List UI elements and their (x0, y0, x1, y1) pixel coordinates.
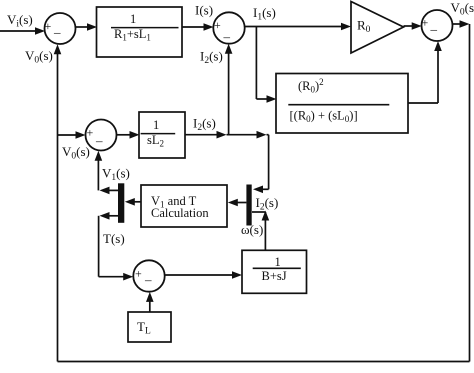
svg-text:–: – (430, 22, 438, 37)
wire input Vi into S1 (0, 27, 45, 35)
amplifier gain R0 triangle (351, 2, 404, 54)
wire feedback bottom horizontal (58, 361, 470, 363)
wire TL up into S5 (146, 292, 154, 312)
svg-text:–: – (144, 272, 152, 287)
svg-text:Calculation: Calculation (151, 206, 209, 220)
svg-text:1: 1 (275, 255, 281, 269)
svg-text:B+sJ: B+sJ (262, 269, 287, 283)
svg-text:V0(s): V0(s) (25, 48, 53, 66)
svg-text:–: – (53, 25, 61, 40)
svg-text:1: 1 (153, 118, 159, 132)
block TL (128, 312, 171, 342)
wire S1 to block G1 (76, 23, 98, 31)
wire G3 output up into S3 (408, 41, 442, 103)
block G4 1/(B+sJ) (242, 250, 307, 293)
svg-text:I2(s): I2(s) (256, 195, 279, 213)
svg-text:I1(s): I1(s) (253, 5, 276, 23)
svg-text:V1(s): V1(s) (102, 166, 130, 184)
svg-text:+: + (135, 267, 142, 281)
mux bar (246, 185, 251, 226)
summing junction S5 (133, 260, 164, 291)
summing junction S1 (45, 13, 76, 44)
wire omega up into mux (252, 211, 269, 251)
svg-text:I(s): I(s) (195, 3, 213, 18)
block G1 1/(R1+sL1) (97, 7, 183, 57)
block G2 1/sL2 (139, 112, 185, 158)
wire feedback tap into S4 (58, 131, 86, 139)
wire feedback left vertical up into S1 (54, 44, 62, 361)
summing junction S3 (422, 10, 453, 41)
wire S2 to amplifier R0 (245, 23, 351, 31)
wire mux to calculation block (228, 199, 247, 207)
block calculation V1 and T (141, 185, 227, 227)
summing junction S4 (86, 120, 117, 151)
wire I2 up into S2 (225, 44, 233, 135)
svg-text:+: + (422, 16, 429, 30)
svg-text:+: + (45, 19, 52, 33)
wire demux V1 up into S4 (95, 151, 118, 195)
wire G2 output I2 horizontal (185, 131, 269, 139)
svg-text:+: + (87, 126, 94, 140)
wire S5 to block G4 (165, 271, 242, 279)
svg-text:1: 1 (130, 12, 136, 26)
svg-text:–: – (223, 29, 231, 44)
svg-text:I2(s): I2(s) (200, 49, 223, 67)
wire S3 output with arrow (453, 20, 470, 28)
wire amplifier to S3 (404, 22, 422, 30)
svg-text:Vi(s): Vi(s) (7, 12, 33, 30)
wire demux T down and into S5 (99, 212, 134, 281)
svg-text:I2(s): I2(s) (193, 116, 216, 134)
svg-text:–: – (95, 133, 103, 148)
wire G1 to S2 (182, 23, 214, 31)
wire calculation block to demux (125, 198, 141, 206)
block G3 (R0)^2 / [(R0)+(sL0)] (276, 74, 408, 134)
svg-text:ω(s): ω(s) (241, 222, 263, 237)
wire I2 down into mux (253, 135, 269, 193)
wire feedback right vertical (469, 24, 471, 362)
svg-text:+: + (214, 18, 221, 32)
wire S4 to block G2 (117, 131, 140, 139)
svg-text:V0(s): V0(s) (62, 144, 90, 162)
summing junction S2 (213, 12, 244, 44)
svg-text:R1+sL1: R1+sL1 (114, 27, 151, 43)
demux bar (118, 183, 124, 223)
wire I1 branch down to block G3 (256, 27, 276, 103)
svg-text:T(s): T(s) (103, 231, 125, 246)
